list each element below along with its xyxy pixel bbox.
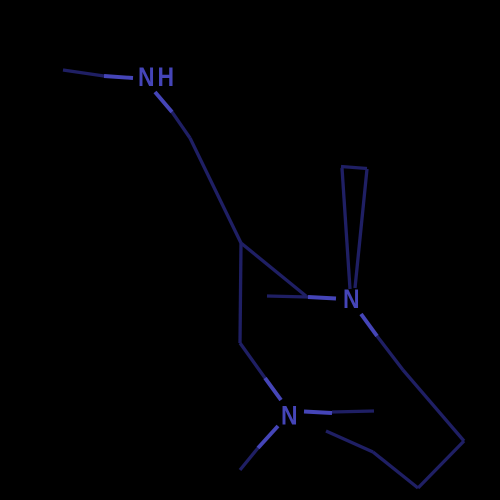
svg-text:N: N <box>343 284 360 314</box>
svg-text:N: N <box>138 62 155 92</box>
svg-text:H: H <box>158 62 175 92</box>
svg-text:N: N <box>281 401 298 431</box>
